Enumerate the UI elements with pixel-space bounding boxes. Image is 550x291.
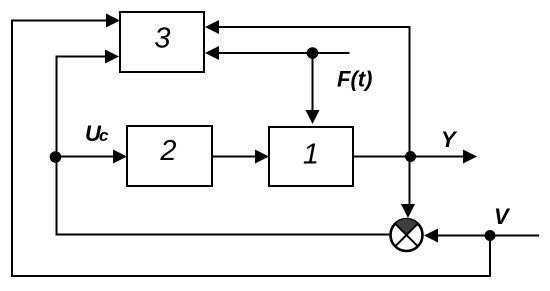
arrowhead into block 1 input: [255, 150, 269, 164]
arrowhead into block 3 lower-right input: [205, 46, 219, 60]
wire Uc node to block 2 input: [56, 156, 115, 158]
wire block 1 output to Y: [353, 156, 464, 158]
node Uc junction dot: [50, 151, 62, 163]
node Y junction dot: [405, 151, 416, 162]
wire V input to summing junction: [438, 235, 539, 237]
arrowhead into summing junction right: [424, 229, 438, 243]
svg-text:2: 2: [159, 135, 176, 167]
block 2: [127, 126, 212, 186]
arrowhead into block 1 top input: [306, 110, 320, 124]
wire Y feedback up to block 3 upper-right input: [219, 27, 410, 157]
svg-text:Y: Y: [441, 127, 458, 152]
arrowhead into block 3 lower-left input: [105, 50, 119, 64]
block 1: [269, 127, 353, 186]
wire F(t) horizontal to block 3 lower-right input: [219, 52, 350, 54]
wire Y down to summing junction: [409, 157, 411, 206]
svg-text:c: c: [99, 126, 109, 145]
svg-text:3: 3: [154, 23, 170, 55]
arrowhead into block 3 upper-right input: [205, 20, 219, 34]
summing junction U (comparator circle): [391, 219, 423, 251]
arrowhead into block 3 upper-left input: [106, 14, 120, 28]
arrowhead Y output: [463, 150, 477, 164]
node F(t) junction dot: [307, 47, 319, 59]
wire block 2 output to block 1 input: [212, 156, 256, 158]
svg-text:1: 1: [303, 139, 319, 171]
wire error/Uc loop (from summing junction output left, up, to block 3 lower-left input): [57, 57, 391, 235]
arrowhead into summing junction top: [401, 204, 415, 218]
arrowhead into block 2 input: [113, 150, 127, 164]
svg-text:F(t): F(t): [337, 67, 372, 92]
svg-text:V: V: [494, 204, 511, 229]
node V junction dot: [485, 230, 496, 241]
block 3: [120, 12, 204, 72]
wire outer feedback loop (V node down, along bottom, up left side, to block 3 upper-left input): [12, 21, 490, 277]
wire F(t) down to block 1 top input: [312, 53, 314, 111]
